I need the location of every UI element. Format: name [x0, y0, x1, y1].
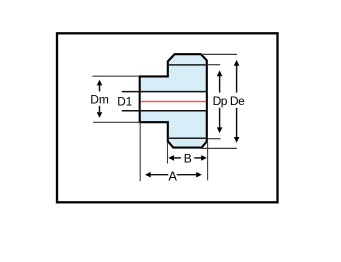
svg-text:B: B [184, 151, 192, 165]
bore bottom line [122, 110, 207, 112]
dimension A arrow right [196, 172, 202, 178]
dimension B arrow left [168, 155, 174, 161]
hub bottom extension line [93, 121, 140, 123]
dimension Dm arrow down [97, 112, 103, 118]
dimension B arrow right [201, 155, 207, 161]
gear right extension line (A/B right) [207, 142, 209, 180]
root line top [167, 64, 207, 66]
red centerline [141, 101, 206, 103]
dimension A arrow left [145, 172, 151, 178]
bore top line [122, 91, 207, 93]
dimension Dp line with arrows [217, 70, 223, 76]
root top extension line [208, 64, 221, 66]
bottom flat extension line [202, 147, 237, 149]
hub top extension line [92, 75, 139, 77]
svg-text:D1: D1 [117, 96, 132, 109]
dimension Dm arrow up [97, 80, 103, 86]
dimension De line with arrows [234, 60, 240, 66]
hub left extension line (A left) [139, 123, 141, 182]
top flat extension line [201, 53, 237, 55]
svg-text:Dm: Dm [90, 92, 109, 106]
frame border [57, 33, 278, 202]
label Dp De (white backed) [212, 93, 246, 108]
svg-text:A: A [168, 168, 177, 183]
root line bottom [167, 137, 207, 139]
svg-text:Dp De: Dp De [213, 94, 246, 108]
bore (white band) [141, 92, 206, 110]
root bottom extension line [208, 138, 221, 140]
gear body with hub (union outline, filled) [140, 54, 207, 147]
gear left extension line (B left) [167, 142, 169, 164]
